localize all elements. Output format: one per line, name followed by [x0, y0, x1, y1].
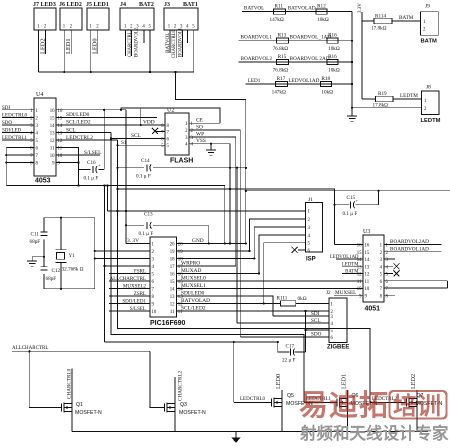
- resistor R15: [277, 59, 289, 64]
- svg-text:R15: R15: [278, 54, 287, 60]
- svg-text:LEDTM: LEDTM: [400, 93, 418, 99]
- wire ZIGBEE pin4 SCL: [237, 322, 329, 324]
- wire U3 pin3: [384, 258, 395, 260]
- svg-text:易迪拓: 易迪拓: [299, 389, 389, 422]
- svg-text:SO: SO: [196, 124, 203, 130]
- wire C13 corner: [208, 225, 210, 243]
- no-connect U3 pin4: [384, 265, 393, 267]
- wire L2b: [118, 189, 335, 245]
- svg-text:C16: C16: [87, 160, 96, 166]
- svg-text:SCL/LED2: SCL/LED2: [66, 120, 91, 126]
- svg-text:MUXSEL0: MUXSEL0: [181, 276, 206, 282]
- wire pin1 down to bus: [90, 30, 92, 72]
- svg-text:0kΩ: 0kΩ: [298, 296, 307, 302]
- capacitor C17: [278, 342, 290, 352]
- svg-text:SDI/LED: SDI/LED: [2, 128, 22, 133]
- wire 3.3V rail: [361, 12, 363, 99]
- no-connect ISP pin6: [298, 249, 306, 251]
- junction bus J5: [90, 71, 92, 73]
- wire U4 pin10 S/LSEL: [56, 154, 100, 156]
- wire vB LEDCTRL1: [111, 132, 304, 402]
- svg-text:Y1: Y1: [69, 253, 76, 259]
- svg-text:147kΩ: 147kΩ: [272, 90, 286, 96]
- svg-text:ZSRL: ZSRL: [134, 292, 146, 297]
- svg-text:J4: J4: [120, 2, 126, 8]
- wire U4 pin13 SCL: [56, 131, 111, 133]
- wire PIC pin9 SDO/LED1: [109, 302, 150, 304]
- svg-text:BATM: BATM: [399, 15, 414, 21]
- svg-text:SCL/LED2: SCL/LED2: [181, 306, 206, 312]
- wire pin9 down: [78, 170, 80, 186]
- wire crystal gnd tap: [32, 256, 44, 258]
- svg-text:11: 11: [50, 147, 55, 152]
- wire ISP pin5: [264, 243, 306, 304]
- svg-text:SDO/LED1: SDO/LED1: [122, 299, 146, 304]
- svg-text:BAT1: BAT1: [183, 2, 198, 8]
- svg-text:C13: C13: [144, 212, 153, 218]
- wire PIC pin19 row: [176, 250, 249, 252]
- ground arrow: [235, 432, 237, 438]
- junction J4 pin5 bus: [149, 71, 151, 73]
- svg-text:R16: R16: [328, 54, 337, 60]
- wire PIC pin6 ALLCHARCTRL: [109, 280, 150, 282]
- watermark red box: [390, 391, 447, 419]
- resistor R111: [280, 301, 295, 306]
- wire U3 pin2 BOARDVOL1AD: [384, 251, 442, 253]
- svg-text:MOSFET-N: MOSFET-N: [75, 410, 102, 416]
- svg-text:MOSFET-N: MOSFET-N: [179, 410, 206, 416]
- svg-text:C15: C15: [347, 195, 356, 201]
- wire LED bus: [39, 71, 176, 73]
- resistor R18 second: [320, 81, 331, 86]
- transistor Q5 MOSFET-N: [234, 402, 272, 404]
- svg-text:20: 20: [170, 242, 175, 247]
- wire ZIGBEE pin3 SDI: [273, 315, 329, 317]
- svg-text:R18: R18: [321, 76, 330, 82]
- wire U3 pin9 MUXSEL: [334, 294, 363, 296]
- wire J4 pin1: [125, 30, 127, 56]
- wire VCC to PIC pin1: [126, 242, 150, 244]
- IC U1 PIC16F690: [150, 237, 176, 317]
- wire bottom GND bus: [72, 431, 428, 433]
- crystal Y1: [60, 218, 62, 250]
- svg-text:C12: C12: [52, 268, 61, 274]
- svg-text:R11: R11: [275, 3, 284, 9]
- svg-text:LED1: LED1: [65, 38, 72, 54]
- divider row BATVOL: [242, 11, 352, 13]
- svg-text:CE: CE: [196, 118, 204, 124]
- wire GND line to J8: [352, 107, 421, 109]
- wire PIC pin8 ZSRL: [109, 295, 150, 297]
- svg-text:10: 10: [50, 154, 55, 159]
- svg-text:LEDTM: LEDTM: [342, 262, 359, 267]
- svg-text:68pF: 68pF: [46, 276, 57, 282]
- wire J3 pin5: [175, 30, 193, 72]
- svg-text:BATM: BATM: [421, 39, 437, 45]
- wire to Q1 gate: [29, 351, 61, 407]
- wire LEDTM net: [393, 98, 422, 100]
- svg-text:11: 11: [365, 280, 370, 285]
- svg-text:VDD: VDD: [143, 120, 155, 126]
- svg-text:4053: 4053: [35, 178, 51, 185]
- wire L2: [6, 186, 224, 244]
- svg-text:射频和天线设计专家: 射频和天线设计专家: [299, 423, 449, 443]
- svg-text:LEDCTRL0: LEDCTRL0: [240, 397, 265, 402]
- wire U3 pin14 LEDVOL1AD: [336, 258, 363, 260]
- svg-text:PIC16F690: PIC16F690: [150, 320, 186, 327]
- svg-text:13: 13: [50, 131, 55, 136]
- svg-text:BOARDVOL1: BOARDVOL1: [178, 27, 183, 57]
- wire C16 run: [79, 169, 91, 171]
- svg-text:BOARDVOL2: BOARDVOL2: [241, 56, 273, 62]
- svg-text:BAT2: BAT2: [139, 2, 154, 8]
- wire PIC pin13 SDI/LED0: [176, 296, 273, 316]
- svg-text:LED1: LED1: [248, 78, 261, 84]
- svg-text:0.1 μ F: 0.1 μ F: [343, 211, 358, 217]
- resistor R16 second: [327, 59, 338, 64]
- svg-text:SDI: SDI: [2, 106, 10, 111]
- svg-text:SCL: SCL: [311, 318, 321, 324]
- wire J4 pin5: [149, 30, 151, 72]
- wire U3 pin6-7 tie: [446, 281, 448, 288]
- svg-text:R111: R111: [277, 296, 288, 302]
- svg-text:19: 19: [170, 250, 175, 255]
- wire C13 run: [126, 224, 144, 226]
- wire ALLCHARCTRL: [12, 350, 150, 352]
- wire J3 pin1: [169, 30, 171, 53]
- wire J3 pin2: [175, 30, 177, 58]
- svg-text:147kΩ: 147kΩ: [270, 17, 284, 23]
- wire VCC down: [125, 110, 127, 244]
- svg-text:J5 LED1: J5 LED1: [86, 2, 109, 8]
- svg-text:S/LSEL: S/LSEL: [84, 150, 101, 156]
- wire U4 pin15 SDI/LED0: [56, 116, 157, 118]
- svg-text:16: 16: [365, 244, 370, 249]
- svg-text:3.3V: 3.3V: [358, 3, 363, 13]
- svg-text:ISP: ISP: [306, 256, 316, 262]
- wire SCL to FLASH: [111, 138, 165, 140]
- svg-text:VSS: VSS: [196, 138, 206, 144]
- wire J4 pin2: [131, 30, 133, 56]
- svg-text:R19: R19: [378, 91, 387, 97]
- wire VSS: [189, 143, 230, 145]
- svg-text:ALLCHARCTRL: ALLCHARCTRL: [12, 346, 48, 351]
- wire PIC GND row: [176, 242, 245, 244]
- wire PIC pin15 MUXSEL0 to U3 pin11: [176, 280, 363, 282]
- no-connect U3 pin5: [384, 273, 393, 275]
- svg-text:J3: J3: [164, 2, 170, 8]
- wire U4 pin3 SDO: [2, 124, 34, 126]
- svg-text:SDI/LED0: SDI/LED0: [181, 291, 205, 297]
- svg-text:BATM: BATM: [345, 270, 359, 275]
- wire to R114: [362, 20, 374, 22]
- wire U4 pin12 LEDCTRL2: [56, 139, 118, 141]
- wire ISP pin1 long: [108, 210, 306, 212]
- transistor Q3 MOSFET-N: [164, 407, 166, 409]
- svg-text:BOARDVOL1: BOARDVOL1: [241, 35, 273, 41]
- svg-text:12: 12: [50, 139, 55, 144]
- resistor R13: [277, 38, 289, 43]
- wire U4 pins6-8 tie: [6, 147, 34, 149]
- svg-text:MUXAD: MUXAD: [181, 268, 201, 274]
- resistor R11: [274, 9, 286, 14]
- svg-text:14: 14: [170, 287, 175, 292]
- svg-text:10kΩ: 10kΩ: [321, 90, 333, 96]
- wire ISP pin3: [254, 227, 305, 258]
- wire ISP pin2: [250, 219, 306, 251]
- ground symbol crystal: [27, 260, 37, 262]
- svg-text:GND: GND: [192, 238, 204, 244]
- svg-text:15: 15: [170, 280, 175, 285]
- wire U4 pin2 LEDCTRL0: [2, 116, 34, 118]
- svg-text:SDI: SDI: [311, 311, 320, 317]
- svg-text:J8: J8: [426, 85, 431, 91]
- svg-text:FLASH: FLASH: [170, 158, 193, 165]
- svg-text:14: 14: [50, 124, 55, 129]
- wire U3 pin8: [384, 294, 395, 296]
- wire PIC pin4 to vA: [104, 265, 150, 267]
- wire U4 pin11: [56, 148, 79, 170]
- svg-text:U3: U3: [363, 229, 370, 235]
- svg-text:BATVOL: BATVOL: [165, 33, 171, 53]
- wire U4 pin14 SCL/LED2 to FLASH VDD: [56, 124, 165, 126]
- svg-text:12: 12: [365, 273, 370, 278]
- svg-text:R17: R17: [277, 76, 286, 82]
- svg-text:BOARDVOL_1AD: BOARDVOL_1AD: [290, 35, 332, 41]
- wire GND rail right: [351, 12, 353, 108]
- svg-text:BATVOLAD: BATVOLAD: [288, 5, 316, 11]
- resistor R12 second: [316, 9, 327, 14]
- wire C16 to VCC: [103, 110, 105, 170]
- ground symbol FLASH: [206, 149, 216, 151]
- svg-text:SDO: SDO: [311, 332, 322, 338]
- svg-text:4051: 4051: [365, 306, 381, 313]
- svg-text:J6 LED2: J6 LED2: [59, 2, 82, 8]
- svg-text:13: 13: [365, 265, 370, 270]
- wire to Q3 gate: [150, 351, 165, 407]
- svg-text:0.1 μ F: 0.1 μ F: [84, 176, 99, 182]
- capacitor C11: [41, 231, 48, 233]
- wire U4 pin16 VCC row: [56, 109, 126, 111]
- svg-text:LED2: LED2: [410, 374, 417, 389]
- wire SO: [189, 129, 240, 131]
- svg-text:CHARCTRL0: CHARCTRL0: [172, 29, 177, 58]
- wire PIC pin18 row: [176, 257, 254, 259]
- wire VSS vertical: [229, 144, 231, 244]
- wire U3 pin16: [334, 244, 363, 246]
- wire SO/SDO vertical: [239, 130, 241, 337]
- svg-text:ALLCHARCTRL: ALLCHARCTRL: [110, 277, 146, 282]
- svg-text:MUXSEL1: MUXSEL1: [181, 283, 206, 289]
- svg-text:BOARDVOL 2AD: BOARDVOL 2AD: [290, 56, 330, 62]
- svg-text:10: 10: [152, 310, 157, 315]
- svg-text:SDO: SDO: [2, 121, 12, 126]
- transistor Q6 MOSFET-N: [304, 402, 337, 404]
- svg-text:LED0: LED0: [92, 38, 99, 54]
- wire C15 right drop: [377, 191, 379, 205]
- svg-text:CHARCTRL2: CHARCTRL2: [177, 370, 183, 401]
- wire WP: [189, 136, 236, 138]
- wire PIC pin14 MUXSEL1 to U3 pin10: [176, 287, 363, 289]
- svg-text:0.1 μ F: 0.1 μ F: [136, 174, 151, 180]
- wire J3 pin4 stub: [187, 30, 189, 43]
- svg-text:11: 11: [170, 310, 175, 315]
- svg-text:12: 12: [170, 302, 175, 307]
- wire pin2 stub: [70, 30, 72, 54]
- svg-text:76.8kΩ: 76.8kΩ: [273, 46, 289, 52]
- svg-text:SCL: SCL: [66, 127, 76, 133]
- wire ZIGBEE pin6 SDO: [240, 336, 329, 338]
- svg-text:MUXSEL2: MUXSEL2: [123, 284, 147, 289]
- svg-text:J2: J2: [326, 290, 331, 296]
- svg-text:LEDTM: LEDTM: [421, 118, 441, 124]
- wire vA LEDCTRL0: [104, 341, 277, 343]
- svg-text:R16: R16: [328, 33, 337, 39]
- junction bus drop: [174, 71, 176, 73]
- svg-text:16: 16: [170, 272, 175, 277]
- svg-text:13: 13: [170, 295, 175, 300]
- svg-text:R12: R12: [317, 3, 326, 9]
- svg-text:S/LSEL: S/LSEL: [130, 307, 146, 312]
- svg-text:J1: J1: [308, 197, 313, 203]
- wire pin5 drop / C17 right riser: [304, 311, 306, 352]
- divider row LED1: [246, 83, 352, 85]
- wire vC LEDCTRL2: [118, 140, 371, 403]
- svg-text:Q5: Q5: [287, 393, 294, 399]
- wire J3 pin3: [181, 30, 183, 57]
- wire U4 pin4 SDI/LED: [2, 131, 34, 133]
- divider row BOARDVOL1: [239, 40, 353, 42]
- wire WP vertical: [235, 137, 237, 266]
- wire PIC pin12 BATVOLAD R111 row: [176, 302, 280, 304]
- wire pin1 down to bus: [38, 30, 40, 72]
- svg-text:LED0: LED0: [275, 374, 282, 389]
- svg-text:J9: J9: [425, 4, 430, 10]
- svg-text:15: 15: [50, 116, 55, 121]
- wire L1 with C14: [118, 167, 145, 169]
- wire trunk: [245, 100, 247, 244]
- svg-text:LEDCTRL0: LEDCTRL0: [2, 113, 27, 118]
- svg-text:68pF: 68pF: [30, 239, 41, 245]
- resistor R17: [276, 81, 288, 86]
- wire U4 pin9: [56, 162, 79, 164]
- wire U3 pin7: [384, 287, 447, 289]
- transistor Q1 MOSFET-N: [61, 407, 63, 409]
- svg-text:16: 16: [50, 109, 55, 114]
- svg-text:22 μ F: 22 μ F: [282, 358, 296, 364]
- wire CE loop: [189, 122, 220, 124]
- wire 3.3V to R19: [362, 98, 376, 100]
- wire PIC pin16 MUXAD: [176, 272, 259, 274]
- svg-text:LEDCTRL1: LEDCTRL1: [2, 136, 27, 141]
- svg-text:Q3: Q3: [180, 402, 187, 408]
- svg-text:U4: U4: [36, 92, 43, 98]
- wire U4 pin5 LEDCTRL1: [2, 139, 34, 141]
- svg-text:18: 18: [170, 257, 175, 262]
- wire U3 pin12 BATM: [342, 273, 363, 275]
- svg-text:培训: 培训: [393, 392, 441, 420]
- junction bus J6: [63, 71, 65, 73]
- svg-text:15: 15: [365, 251, 370, 256]
- svg-text:76.8kΩ: 76.8kΩ: [273, 68, 289, 74]
- svg-text:WP: WP: [196, 132, 204, 138]
- svg-text:0.1 μ F: 0.1 μ F: [139, 231, 154, 237]
- wire PIC pin11 SCL/LED2: [176, 310, 329, 312]
- svg-text:BATVOLAD: BATVOLAD: [181, 298, 210, 304]
- wire bus drop to trunk: [175, 72, 245, 100]
- svg-text:LEDCTRL2: LEDCTRL2: [66, 135, 93, 141]
- svg-text:Q1: Q1: [76, 402, 83, 408]
- svg-text:10: 10: [365, 287, 370, 292]
- wire pin2 stub: [97, 30, 99, 54]
- svg-text:10kΩ: 10kΩ: [328, 68, 340, 74]
- svg-text:17.8kΩ: 17.8kΩ: [373, 102, 389, 108]
- transistor Q7 MOSFET-N: [370, 402, 407, 404]
- wire pin2 stub: [45, 30, 47, 54]
- svg-text:J7 LED3: J7 LED3: [33, 2, 56, 8]
- capacitor C12: [41, 266, 48, 268]
- svg-text:CHARCTRL0: CHARCTRL0: [66, 368, 72, 399]
- svg-text:14: 14: [365, 258, 370, 263]
- wire PIC pin5 FSRL: [109, 272, 150, 274]
- wire U3 pin13 LEDTM: [342, 265, 363, 267]
- wire VDD riser: [140, 108, 142, 125]
- svg-text:17: 17: [170, 265, 175, 270]
- wire SCL vertical: [236, 168, 238, 323]
- svg-text:ZIGBEE: ZIGBEE: [327, 345, 349, 351]
- svg-text:WRPRO: WRPRO: [181, 261, 200, 267]
- ground symbol right: [351, 108, 353, 116]
- svg-text:CHARCTRL2: CHARCTRL2: [128, 28, 133, 57]
- wire J4 pin4 stub: [143, 30, 145, 43]
- wire pin1 down to bus: [63, 30, 65, 72]
- svg-text:32.768k Ω: 32.768k Ω: [62, 267, 84, 273]
- svg-text:FSRL: FSRL: [134, 269, 146, 274]
- svg-text:LED1: LED1: [341, 374, 348, 389]
- no-connect FLASH pin7: [156, 131, 165, 133]
- svg-text:10kΩ: 10kΩ: [317, 17, 329, 23]
- wire U3 pin1 BOARDVOL2AD: [384, 244, 442, 246]
- divider row BOARDVOL2: [239, 61, 353, 63]
- wire PIC pin17 WRPRO: [176, 265, 235, 267]
- svg-text:SCL: SCL: [131, 133, 141, 139]
- svg-text:+: +: [356, 198, 359, 203]
- wire vA top: [103, 186, 105, 343]
- svg-text:BOARDVOL1AD: BOARDVOL1AD: [390, 246, 429, 252]
- resistor R16 second: [327, 38, 338, 43]
- svg-text:MUXSEL: MUXSEL: [335, 290, 356, 296]
- wire U4 pin1 SDI: [2, 109, 34, 111]
- svg-text:17.8kΩ: 17.8kΩ: [371, 26, 387, 32]
- wire L3: [246, 190, 450, 192]
- wire U3 pin6: [384, 280, 447, 282]
- svg-text:10: 10: [357, 287, 362, 292]
- svg-text:SDI/LED0: SDI/LED0: [66, 112, 90, 118]
- connector J2 ZIGBEE: [329, 298, 347, 343]
- svg-text:10kΩ: 10kΩ: [328, 46, 340, 52]
- svg-text:BATVOL: BATVOL: [244, 5, 264, 11]
- wire S1 to FLASH: [118, 144, 166, 146]
- svg-text:C11: C11: [31, 232, 40, 238]
- svg-text:11: 11: [357, 280, 362, 285]
- svg-text:LEDVOL1AD: LEDVOL1AD: [289, 78, 320, 84]
- wire ZIGBEE pin5: [305, 329, 329, 331]
- svg-text:R13: R13: [278, 33, 287, 39]
- svg-text:3. 3V: 3. 3V: [127, 238, 139, 244]
- wire crystal loop: [44, 217, 95, 219]
- svg-text:LED2: LED2: [39, 38, 46, 54]
- wire PIC pin7 MUXSEL2: [109, 287, 150, 289]
